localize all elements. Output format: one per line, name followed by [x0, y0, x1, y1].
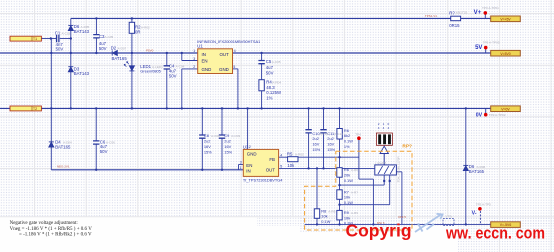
svg-text:15%: 15%	[312, 147, 320, 152]
svg-text:GND: GND	[202, 67, 212, 72]
svg-text:EN: EN	[202, 59, 208, 64]
svg-text:2u2: 2u2	[204, 139, 211, 144]
svg-text:A-C09: A-C09	[231, 134, 240, 138]
svg-text:A-LED1: A-LED1	[152, 65, 163, 69]
svg-text:R6: R6	[344, 128, 349, 133]
svg-text:10k: 10k	[287, 163, 295, 168]
svg-text:BAT165: BAT165	[469, 169, 485, 174]
svg-text:TP5 A-TP05: TP5 A-TP05	[483, 41, 500, 45]
svg-text:A-D05: A-D05	[81, 25, 90, 29]
svg-text:1: 1	[193, 49, 195, 53]
svg-text:0V: 0V	[476, 113, 483, 119]
svg-text:2u2: 2u2	[327, 136, 334, 141]
svg-text:4: 4	[383, 126, 385, 130]
svg-text:15%: 15%	[327, 147, 335, 152]
svg-text:GND: GND	[219, 67, 229, 72]
svg-text:A-C05: A-C05	[272, 60, 281, 64]
svg-text:R?: R?	[449, 10, 455, 15]
svg-text:EN: EN	[246, 163, 252, 168]
svg-text:2: 2	[193, 65, 195, 69]
svg-text:A-R04: A-R04	[272, 81, 281, 85]
svg-text:R7: R7	[344, 189, 349, 194]
svg-text:A-R05: A-R05	[295, 153, 304, 157]
svg-text:U1: U1	[197, 44, 203, 49]
svg-text:C8: C8	[204, 133, 209, 138]
svg-text:BAT143: BAT143	[74, 29, 90, 34]
svg-text:BAT165: BAT165	[112, 56, 128, 61]
svg-text:0.1W: 0.1W	[344, 200, 353, 205]
svg-text:0R15: 0R15	[449, 23, 460, 28]
svg-text:A-R9: A-R9	[351, 211, 358, 215]
svg-text:R9: R9	[344, 210, 349, 215]
svg-text:4: 4	[234, 49, 236, 53]
svg-text:A-R02: A-R02	[141, 26, 150, 30]
svg-text:0.125W: 0.125W	[266, 90, 282, 95]
svg-text:GND: GND	[247, 152, 257, 157]
svg-text:15%: 15%	[224, 149, 232, 154]
svg-text:3: 3	[240, 161, 242, 165]
svg-text:16V: 16V	[327, 142, 334, 147]
svg-text:U3: U3	[243, 144, 249, 149]
svg-text:TPS1.V1: TPS1.V1	[425, 14, 437, 18]
svg-text:2u2: 2u2	[312, 136, 319, 141]
svg-text:V+: V+	[474, 10, 482, 16]
svg-text:OUT: OUT	[266, 167, 276, 172]
svg-text:4: 4	[378, 126, 380, 130]
svg-text:OUT: OUT	[220, 52, 230, 57]
svg-text:0.1W: 0.1W	[344, 178, 353, 183]
svg-text:ww. eccn. com: ww. eccn. com	[445, 224, 545, 243]
svg-text:A-C04: A-C04	[176, 65, 185, 69]
svg-text:0.1W: 0.1W	[321, 219, 330, 224]
svg-text:50V: 50V	[56, 47, 64, 52]
svg-text:50V: 50V	[99, 46, 107, 51]
svg-text:C9: C9	[224, 133, 229, 138]
svg-text:20k: 20k	[344, 173, 350, 178]
svg-text:R5: R5	[287, 152, 293, 157]
svg-text:0R: 0R	[135, 30, 141, 35]
svg-text:(??): (??)	[446, 214, 452, 218]
svg-text:48.3: 48.3	[266, 85, 275, 90]
svg-text:INFINEON_IFX20001MBV50HTSA1: INFINEON_IFX20001MBV50HTSA1	[197, 39, 260, 44]
svg-text:A-D06: A-D06	[477, 165, 486, 169]
svg-text:1%: 1%	[344, 144, 350, 149]
svg-text:A-R8: A-R8	[328, 209, 335, 213]
svg-text:5: 5	[233, 65, 235, 69]
svg-text:TDK_RK06L1173P: TDK_RK06L1173P	[396, 156, 400, 182]
svg-text:V=0V: V=0V	[501, 107, 510, 111]
svg-text:50V: 50V	[266, 70, 274, 75]
svg-text:DNI.5: DNI.5	[398, 215, 406, 219]
svg-text:10k: 10k	[344, 195, 350, 200]
svg-text:NEG.2V1: NEG.2V1	[57, 164, 70, 168]
svg-text:TP4: TP4	[355, 133, 361, 137]
svg-text:R8: R8	[321, 208, 326, 213]
svg-text:D2: D2	[111, 46, 117, 51]
svg-text:1: 1	[240, 166, 242, 170]
svg-text:4: 4	[280, 153, 282, 157]
svg-text:C11: C11	[327, 131, 334, 136]
svg-text:5V: 5V	[475, 45, 482, 51]
svg-text:A-C10: A-C10	[319, 132, 328, 136]
svg-text:A-D04: A-D04	[63, 141, 72, 145]
svg-text:A-C06: A-C06	[106, 140, 115, 144]
svg-text:A-C11: A-C11	[334, 132, 343, 136]
svg-text:Green/0805: Green/0805	[140, 69, 161, 74]
svg-text:2: 2	[249, 145, 251, 149]
svg-text:= -1.186 V * (1 + Rfb/Rk2 ) +: = -1.186 V * (1 + Rfb/Rk2 ) + 0.6 V	[19, 233, 92, 238]
svg-text:4: 4	[388, 126, 390, 130]
svg-text:5: 5	[280, 165, 282, 169]
svg-text:Copyrig: Copyrig	[346, 220, 412, 240]
svg-text:Vneg = -1.186 V * (1 + Rfb/R5: Vneg = -1.186 V * (1 + Rfb/R5 ) + 0.6 V	[10, 227, 93, 232]
svg-text:R6: R6	[344, 167, 349, 172]
svg-text:1%: 1%	[266, 96, 272, 101]
svg-text:P5V0: P5V0	[146, 48, 154, 52]
svg-text:V=5V0: V=5V0	[500, 52, 510, 56]
svg-text:A-D07: A-D07	[118, 47, 127, 51]
svg-text:BAT165: BAT165	[55, 144, 71, 149]
svg-text:r sheb?l: r sheb?l	[375, 161, 386, 165]
svg-text:A-C05: A-C05	[105, 35, 114, 39]
svg-text:V-: V-	[472, 211, 477, 217]
svg-text:A-C16: A-C16	[62, 31, 71, 35]
svg-text:50V: 50V	[169, 74, 177, 79]
svg-text:C1: C1	[55, 30, 61, 35]
svg-text:50V: 50V	[100, 149, 108, 154]
svg-text:RP?: RP?	[402, 143, 412, 149]
svg-text:16V: 16V	[204, 144, 211, 149]
svg-text:3: 3	[193, 57, 195, 61]
svg-text:FB: FB	[269, 157, 275, 162]
svg-text:Negative gate voltage adjustme: Negative gate voltage adjustment:	[10, 221, 78, 226]
svg-text:2u2: 2u2	[224, 139, 231, 144]
svg-text:IN: IN	[202, 52, 206, 57]
svg-text:A-R6: A-R6	[351, 168, 358, 172]
svg-text:16V: 16V	[312, 142, 319, 147]
svg-text:KB1T25: KB1T25	[456, 11, 467, 15]
svg-text:0.1W: 0.1W	[344, 139, 353, 144]
svg-text:BAT143: BAT143	[74, 71, 90, 76]
svg-text:6k2: 6k2	[344, 133, 350, 138]
svg-text:IN: IN	[246, 169, 250, 174]
svg-text:V=+5V: V=+5V	[500, 17, 511, 21]
svg-text:A-R7: A-R7	[351, 190, 358, 194]
svg-text:A-C08: A-C08	[211, 134, 220, 138]
svg-text:T2: T2	[33, 107, 37, 111]
svg-text:TP5 A-TP5: TP5 A-TP5	[476, 203, 491, 207]
svg-text:T1: T1	[33, 37, 37, 41]
svg-text:TI_TPS72301DBVTG4: TI_TPS72301DBVTG4	[243, 178, 283, 183]
svg-text:TP2 A-TP02: TP2 A-TP02	[489, 113, 506, 117]
svg-text:16V: 16V	[224, 144, 231, 149]
svg-text:15%: 15%	[204, 149, 212, 154]
svg-text:TP0 A-TP01: TP0 A-TP01	[482, 6, 499, 10]
svg-text:10k: 10k	[321, 214, 327, 219]
